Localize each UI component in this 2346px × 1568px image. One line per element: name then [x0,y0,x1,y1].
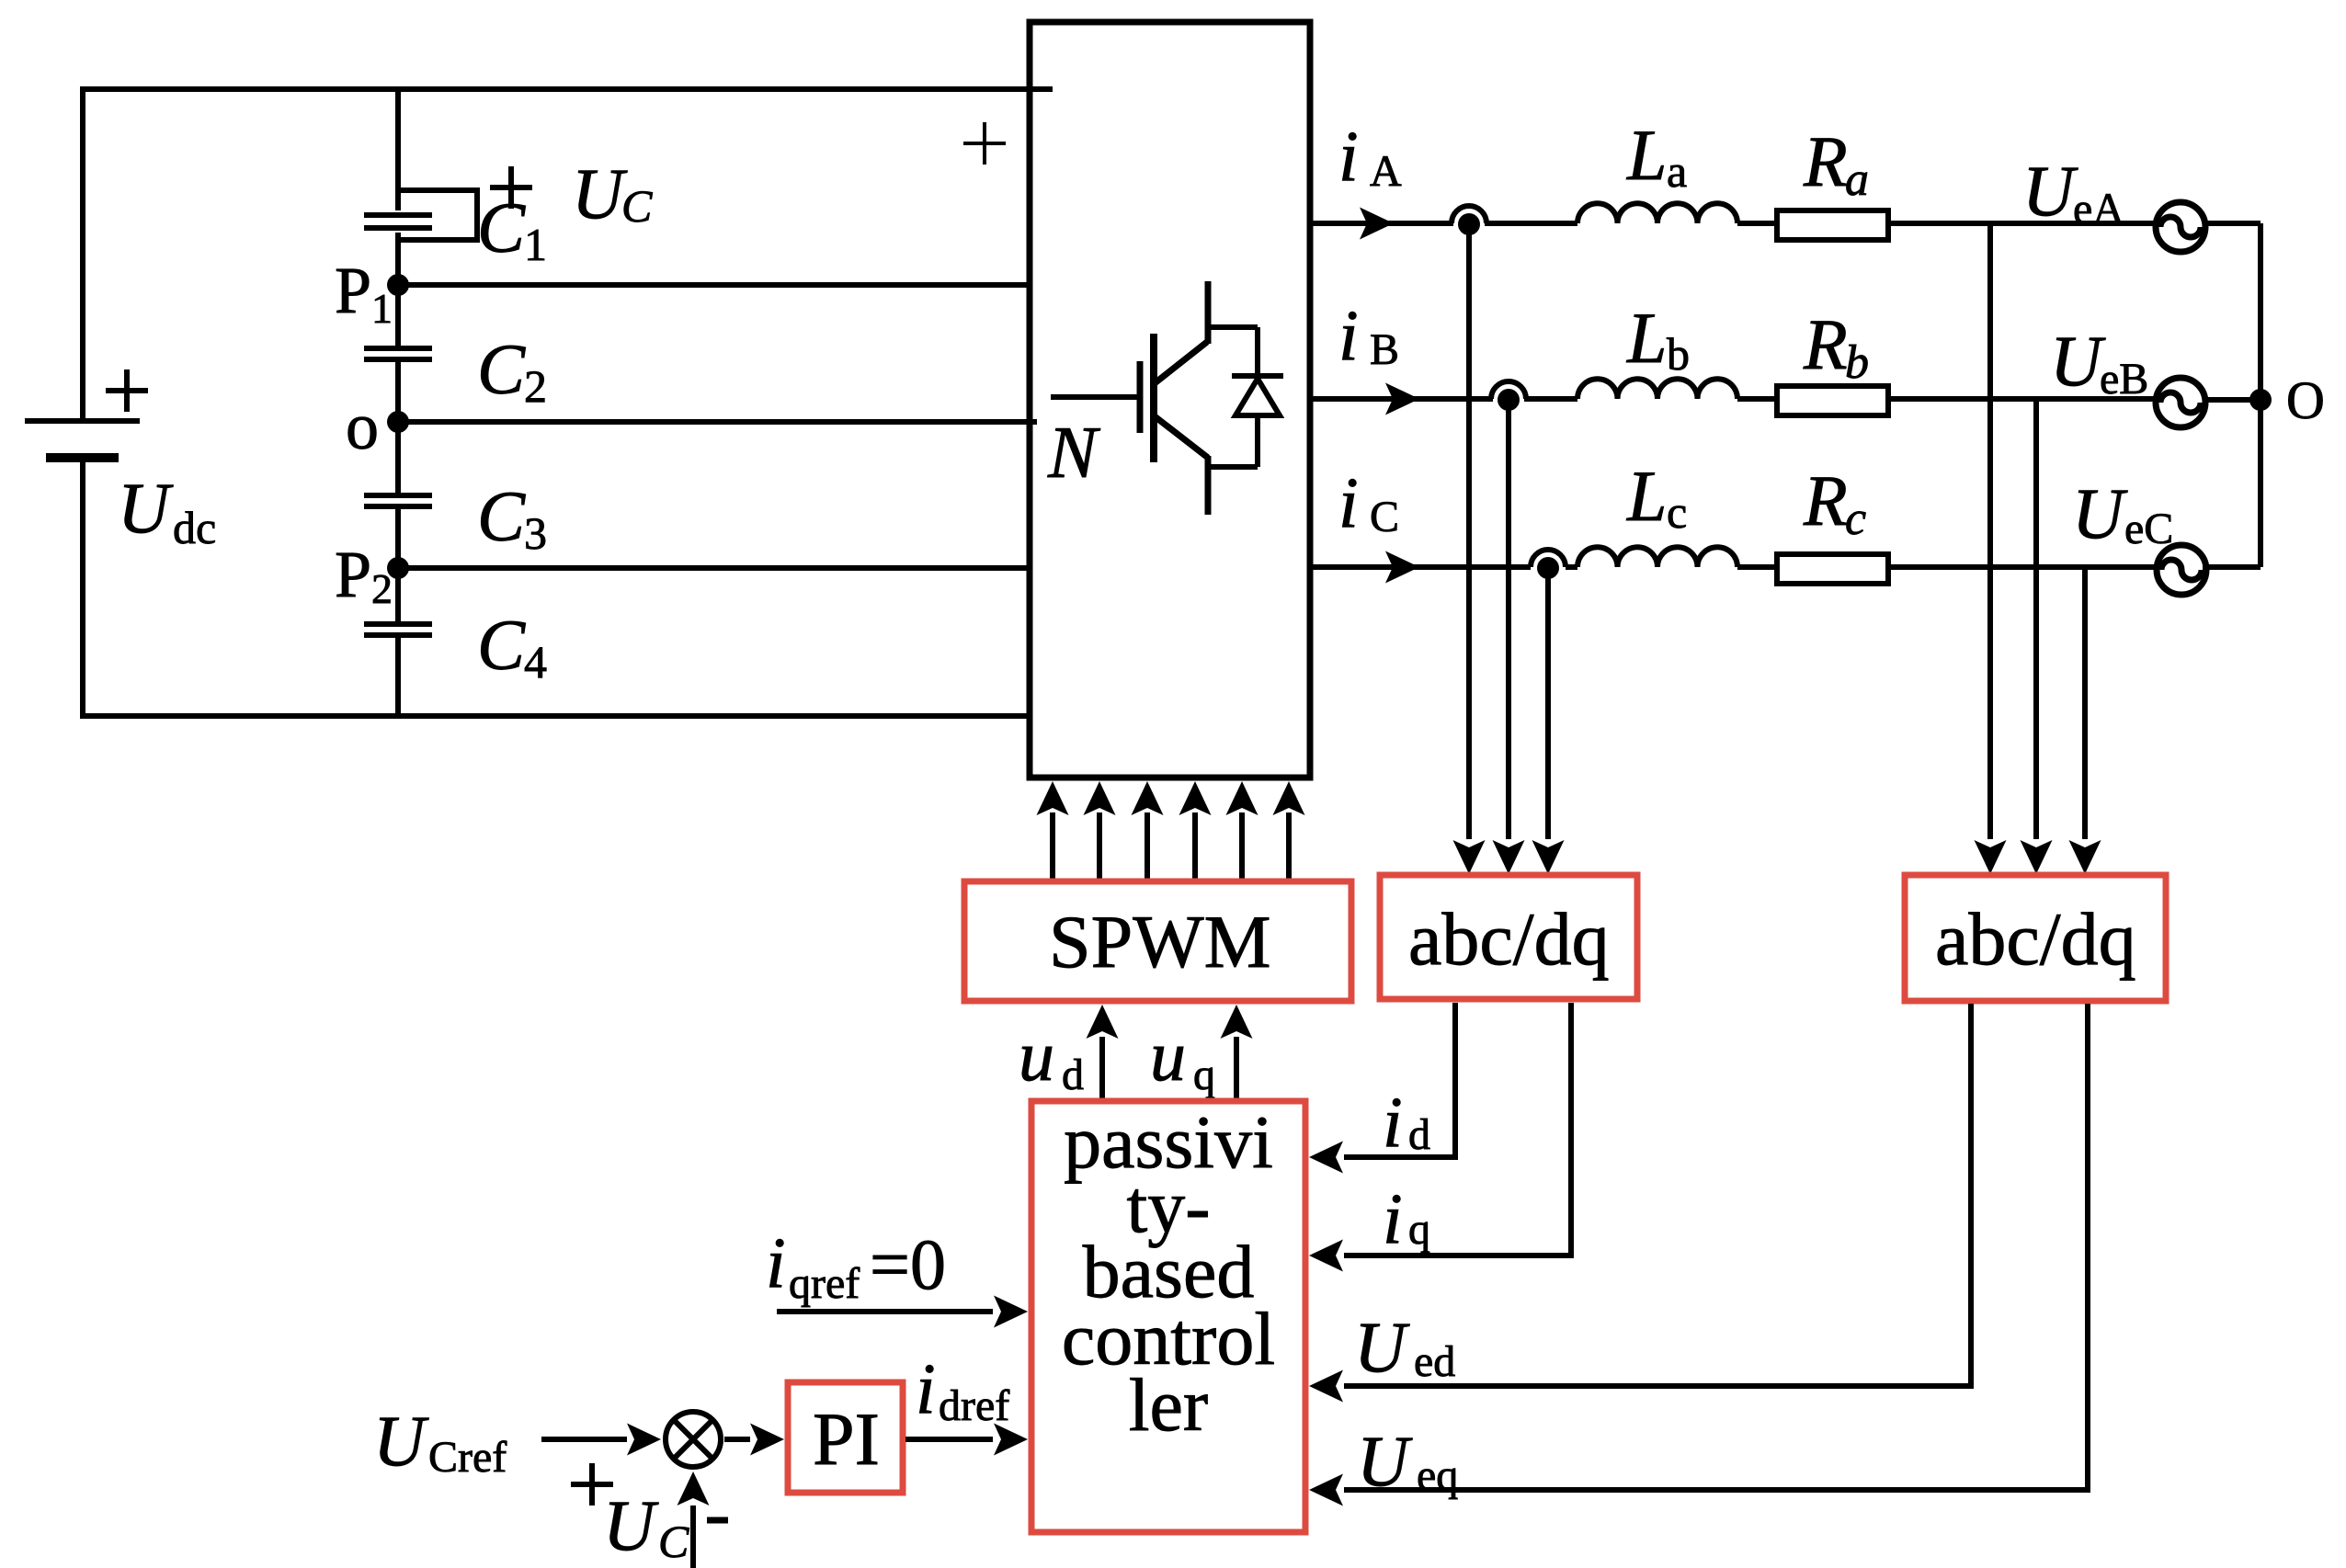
svg-text:R: R [1803,121,1848,201]
source U_eC [2157,545,2206,595]
svg-text:4: 4 [524,636,547,687]
wire o to inverter [398,419,1037,425]
svg-text:d: d [1062,1051,1084,1099]
svg-text:=0: =0 [870,1224,946,1304]
junction A hop [1452,206,1486,223]
IGBT Q1 collector [1155,281,1208,383]
abc/dq current box [1380,875,1637,999]
capacitor C2 [364,348,432,359]
svg-text:eA: eA [2073,185,2124,233]
wire top dc bus [83,86,1053,92]
svg-text:b: b [1667,328,1690,380]
svg-text:L: L [1626,456,1667,536]
svg-text:C: C [1370,493,1399,541]
svg-text:U: U [603,1485,659,1565]
wire source C to rail [2203,564,2261,570]
wire i_d output [1344,1003,1455,1157]
resistor Rc [1777,554,1888,584]
wire current tap B [1506,404,1511,839]
arrow phase B [1385,383,1419,415]
svg-text:ler: ler [1129,1363,1208,1447]
svg-text:C: C [477,329,526,409]
capacitor C4 [364,624,432,635]
svg-text:i: i [1338,462,1359,542]
wire voltage tap A [1987,223,1993,839]
svg-text:N: N [1047,413,1101,494]
battery U_dc bottom plate [46,453,119,462]
node O [2249,389,2272,411]
wire i_qref input [777,1309,993,1314]
battery plus sign [106,369,148,412]
minus sign [707,1517,728,1524]
svg-text:i: i [916,1348,936,1428]
svg-text:C: C [477,476,526,556]
svg-text:1: 1 [371,285,393,332]
svg-text:dc: dc [173,502,216,553]
wire left dc rail upper [80,86,85,418]
svg-text:U: U [2072,473,2128,553]
resistor Ra [1777,210,1888,240]
svg-text:R: R [1803,304,1848,384]
source U_eB [2156,378,2205,427]
svg-text:U: U [2050,321,2106,401]
inverter box [1030,22,1310,778]
svg-text:L: L [1626,298,1667,378]
inductor Lb [1577,379,1737,399]
svg-text:c: c [1667,486,1687,538]
arrow phase C [1385,551,1419,584]
wire Lc to Rc [1737,564,1774,570]
svg-text:b: b [1845,336,1869,389]
svg-text:C: C [621,180,653,232]
svg-text:2: 2 [371,565,393,612]
svg-text:Cref: Cref [428,1433,507,1482]
resistor Rb [1777,386,1888,415]
wire La to Ra [1737,221,1774,226]
wire P1 to inverter [398,282,1030,288]
svg-text:C: C [477,187,526,267]
arrow u_d [1099,1037,1105,1098]
svg-text:u: u [1019,1016,1054,1096]
PI box [788,1382,903,1493]
svg-text:a: a [1845,153,1869,206]
capacitor C3 [364,495,432,506]
junction B dot [1498,389,1520,411]
svg-text:eC: eC [2124,505,2173,553]
inverter plus sign [963,122,1006,165]
svg-text:U: U [2022,151,2078,231]
wire phase A out [1310,221,1577,226]
summing junction [666,1412,721,1467]
svg-text:L: L [1626,115,1667,195]
wire current tap C [1545,574,1551,839]
svg-text:3: 3 [524,507,547,559]
junction A dot [1458,213,1480,235]
node o [387,411,409,433]
C1 plus sign [490,166,532,209]
svg-text:PI: PI [813,1397,880,1481]
svg-text:a: a [1667,145,1687,197]
wire voltage tap B [2033,400,2039,839]
C1 sense loop [398,190,477,240]
svg-text:i: i [1383,1178,1403,1258]
wire i_q output [1344,1003,1571,1256]
wire U_ed feedback [1344,1004,1971,1386]
wire Rb to source B [1891,396,2157,402]
wire Ra to source A [1891,221,2155,226]
svg-text:U: U [118,468,174,548]
wire left dc rail lower [80,458,85,719]
IGBT Q1 gate wire [1051,394,1137,400]
source U_eA [2156,202,2205,252]
SPWM box [964,881,1351,1001]
wire IGBT to diode bottom [1208,464,1258,470]
svg-text:c: c [1845,493,1866,545]
arrows current taps into abc/dq [1453,840,1486,874]
arrow u_q [1234,1037,1239,1098]
diode D1 [1255,327,1260,467]
IGBT Q1 body bar [1150,334,1157,462]
plus sign at sum [571,1463,613,1506]
svg-text:A: A [1370,147,1402,196]
node P2 [387,557,409,579]
svg-text:q: q [1408,1205,1430,1254]
arrow phase A [1360,208,1394,240]
svg-text:C: C [477,605,526,685]
svg-text:P: P [335,254,371,327]
svg-text:U: U [572,153,628,233]
wire source A to rail [2203,221,2261,226]
wire voltage tap C [2082,567,2088,839]
SPWM gate arrows [1053,812,1289,880]
inductor Lc [1577,547,1737,567]
svg-text:q: q [1193,1051,1215,1099]
svg-text:U: U [1354,1307,1410,1387]
svg-text:o: o [346,390,379,463]
arrow U_C into sum [690,1506,696,1568]
wire current tap A [1466,230,1472,839]
svg-text:abc/dq: abc/dq [1408,897,1610,981]
capacitor C1 [364,215,432,228]
svg-text:d: d [1408,1110,1430,1159]
wire Lb to Rb [1737,396,1774,402]
svg-text:eB: eB [2100,355,2148,403]
wire right rail [2258,223,2263,567]
svg-text:U: U [1357,1421,1413,1501]
inductor La [1577,203,1737,223]
svg-text:eq: eq [1417,1451,1458,1500]
passivity controller box [1031,1101,1305,1532]
wire phase C out [1310,564,1577,570]
wire bottom dc bus [83,713,1030,719]
junction C hop [1531,550,1566,567]
svg-text:i: i [1338,116,1359,196]
junction C dot [1537,557,1559,579]
svg-text:C: C [658,1516,689,1567]
svg-text:qref: qref [789,1259,860,1308]
svg-text:abc/dq: abc/dq [1935,897,2136,981]
IGBT Q1 emitter [1155,416,1208,515]
arrows voltage taps into abc/dq [1975,840,2007,874]
wire U_eq feedback [1344,1004,2088,1490]
svg-text:i: i [1338,295,1359,375]
abc/dq voltage box [1905,875,2166,1001]
svg-text:1: 1 [524,219,547,270]
wire source B to rail [2204,397,2261,403]
node P1 [387,274,409,296]
svg-text:ed: ed [1414,1337,1455,1386]
svg-text:u: u [1150,1016,1186,1096]
svg-text:U: U [373,1401,429,1481]
svg-text:dref: dref [939,1381,1009,1430]
wire capacitor chain [395,89,401,716]
wire PI to controller [905,1437,993,1442]
wire sum to PI [724,1437,750,1442]
wire IGBT to diode top [1208,324,1258,330]
wire Rc to source C [1891,564,2155,570]
svg-text:B: B [1370,325,1399,374]
svg-text:i: i [1383,1082,1403,1162]
svg-text:i: i [766,1222,786,1302]
battery U_dc top plate [25,418,140,424]
svg-text:SPWM: SPWM [1049,900,1271,983]
wire phase B out [1310,396,1577,402]
wire P2 to inverter [398,565,1030,571]
svg-text:2: 2 [524,360,547,412]
IGBT Q1 gate bar [1137,361,1144,433]
svg-text:R: R [1803,460,1848,540]
svg-text:O: O [2286,370,2325,430]
junction B hop [1491,381,1526,399]
wire U_Cref to sum [541,1437,627,1442]
svg-text:P: P [335,538,371,611]
